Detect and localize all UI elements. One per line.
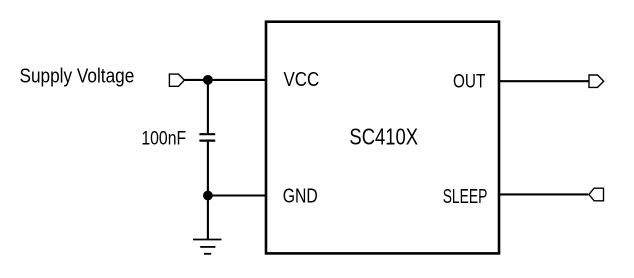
wire: supply to VCC pin	[184, 79, 266, 81]
svg-text:VCC: VCC	[284, 69, 320, 91]
wire: SLEEP pin to sleep port	[499, 193, 588, 195]
svg-text:100nF: 100nF	[141, 129, 186, 150]
ground	[193, 240, 222, 254]
svg-text:Supply Voltage: Supply Voltage	[20, 66, 135, 88]
capacitor C1 (plates)	[199, 134, 215, 140]
input port connector (Supply Voltage)	[169, 74, 184, 86]
svg-text:GND: GND	[283, 185, 318, 207]
node: VCC junction	[203, 75, 213, 85]
wire: capacitor bottom to GND junction	[207, 142, 209, 196]
input port connector (SLEEP)	[589, 188, 604, 201]
svg-text:SLEEP: SLEEP	[443, 186, 488, 208]
node: GND junction	[203, 191, 213, 201]
svg-text:SC410X: SC410X	[349, 123, 418, 149]
svg-text:OUT: OUT	[453, 70, 485, 92]
wire: junction to GND pin	[208, 194, 266, 196]
wire: junction down to capacitor top	[207, 80, 209, 133]
output port connector (OUT)	[589, 75, 604, 87]
IC U1 SC410X (body)	[266, 22, 499, 254]
wire: junction down to ground	[207, 196, 209, 240]
wire: OUT pin to output port	[499, 80, 589, 82]
